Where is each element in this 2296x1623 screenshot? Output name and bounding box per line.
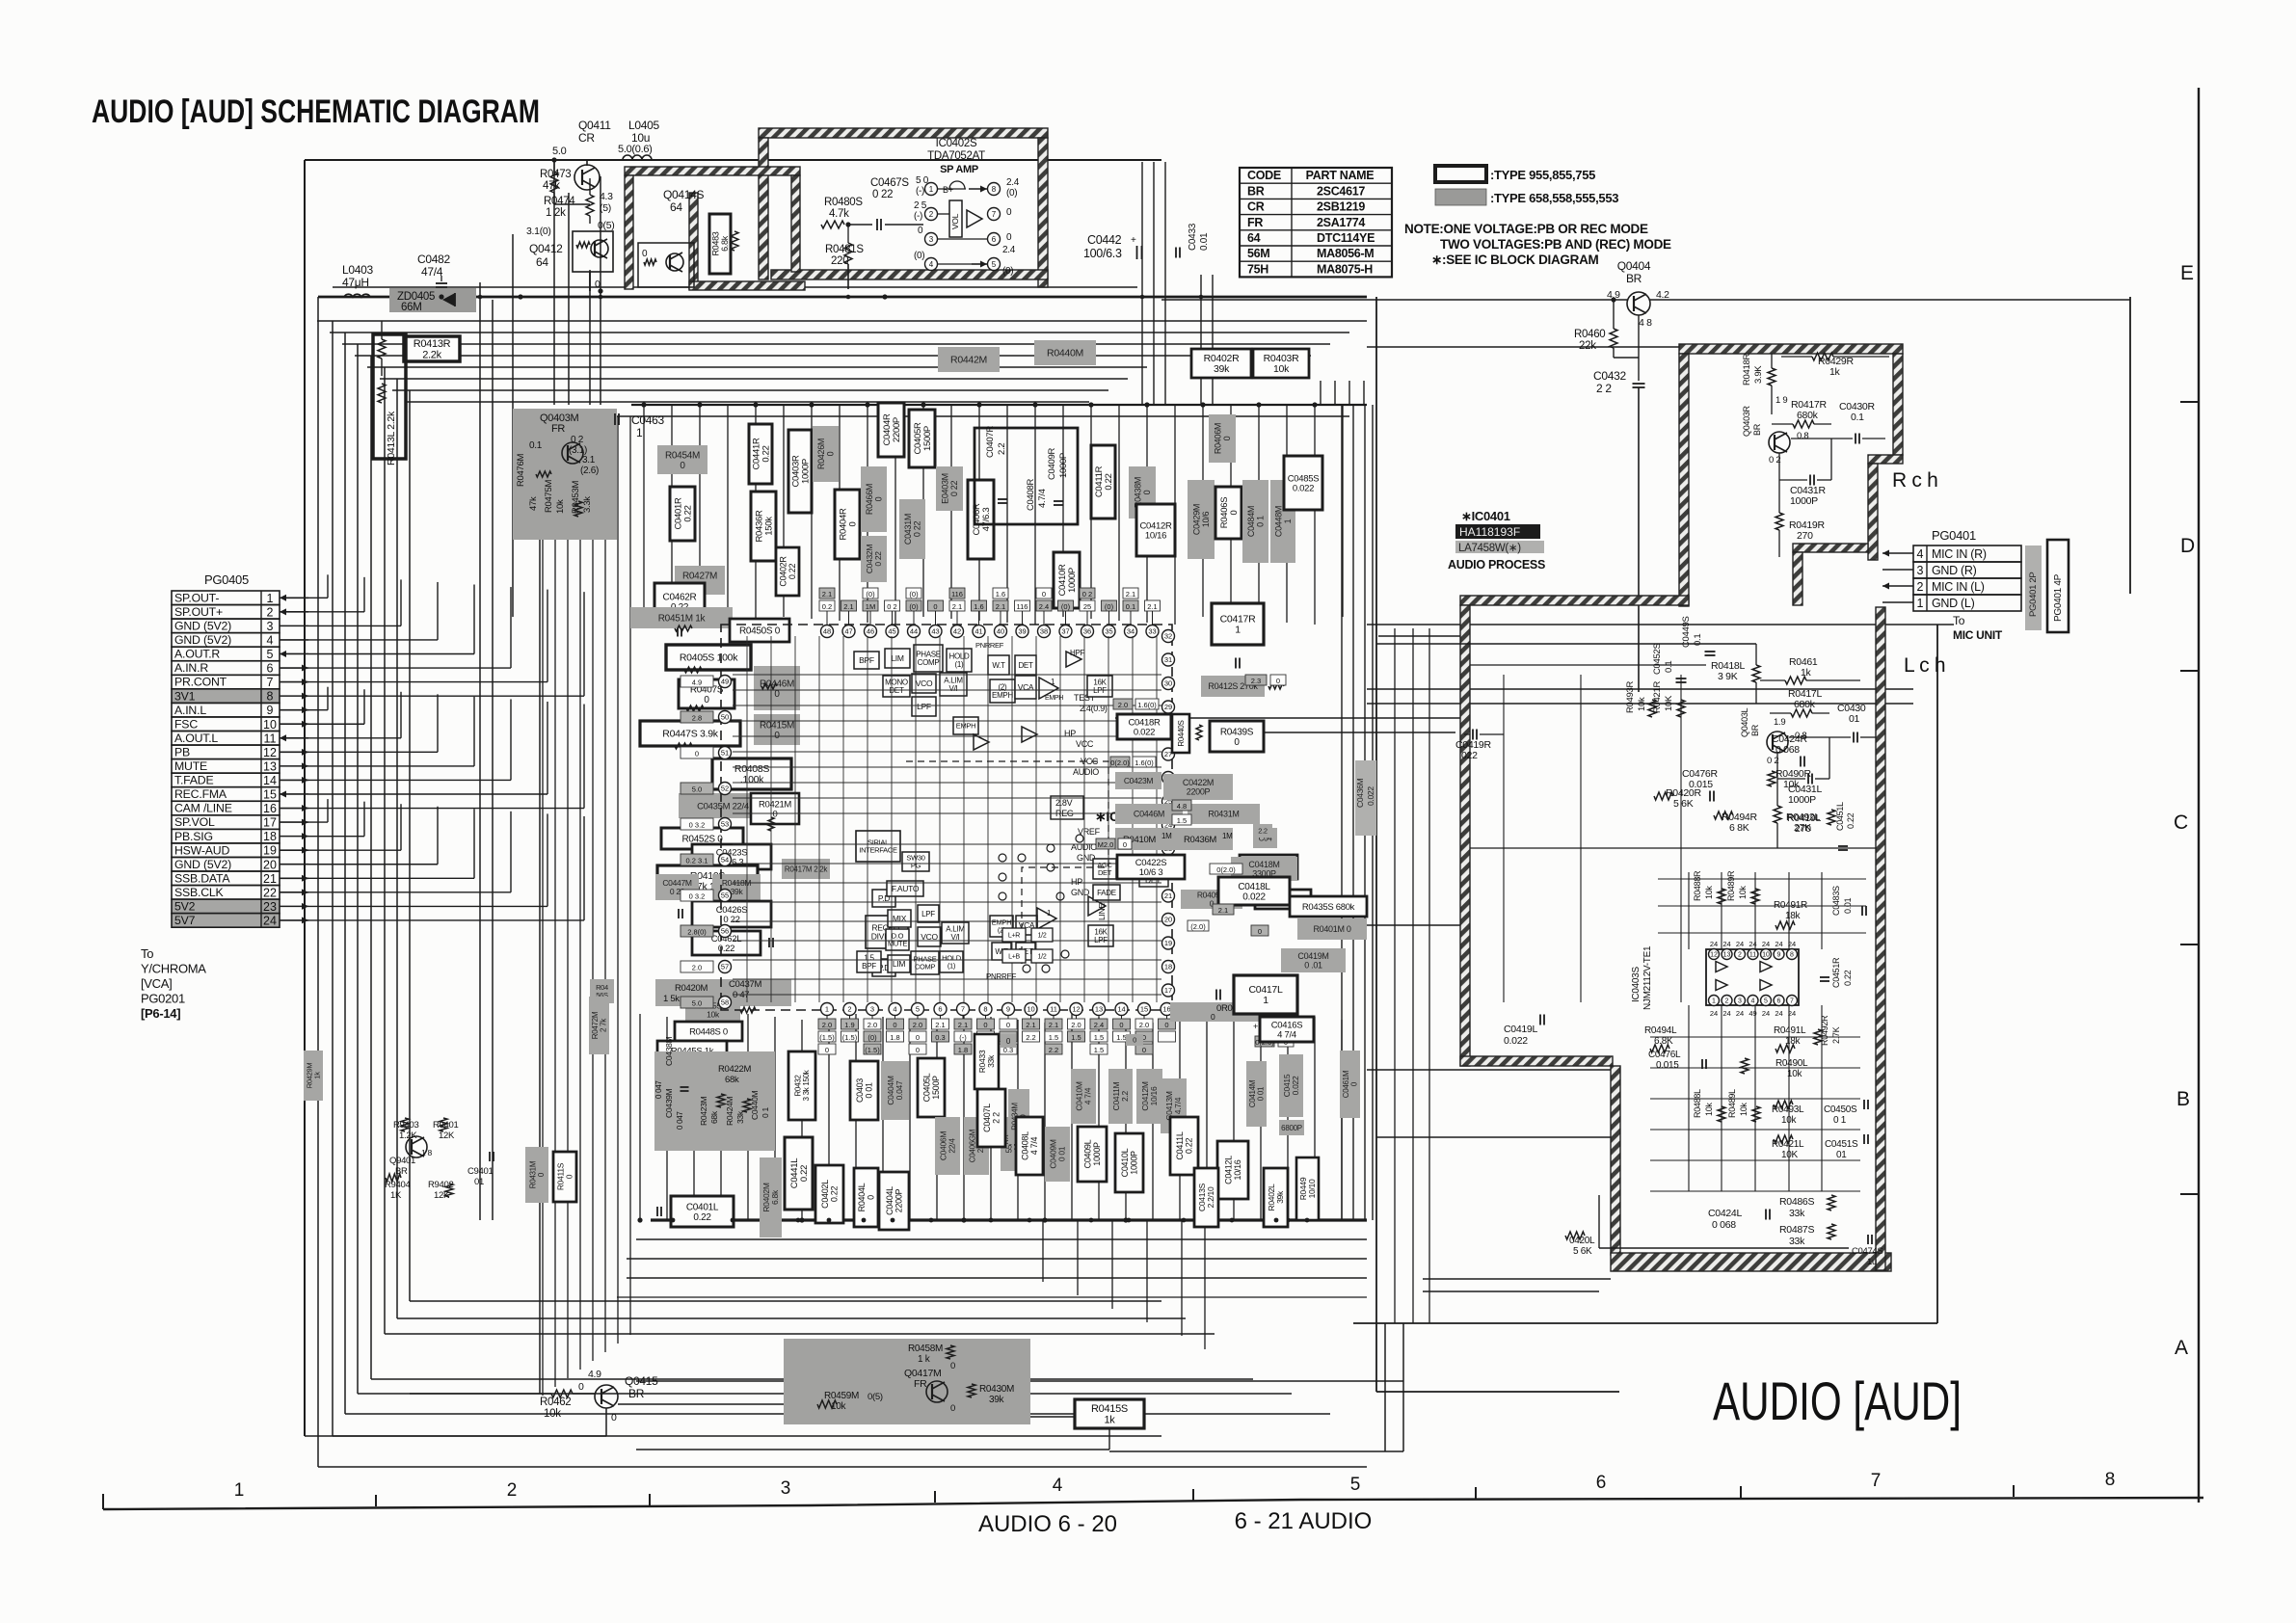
left fan connector stubs	[308, 597, 328, 599]
PG0405 pin 13 MUTE	[172, 759, 280, 774]
PG0405 pin 18 PB.SIG	[172, 829, 280, 843]
svg-text:2.1: 2.1	[996, 602, 1005, 611]
IC0401 inner amps mid	[974, 734, 989, 750]
capacitor block C0410M	[1071, 1069, 1096, 1124]
capacitor block C0415	[1279, 1054, 1303, 1117]
svg-text:0 047: 0 047	[654, 1080, 663, 1099]
svg-text:(1): (1)	[948, 962, 956, 971]
svg-text:A.IN.L: A.IN.L	[174, 704, 206, 717]
svg-text:8: 8	[2105, 1470, 2116, 1490]
wires IC0403S grid	[1658, 878, 1866, 880]
svg-text:0.022: 0.022	[1134, 727, 1155, 737]
resistor R0413L frame	[373, 334, 406, 459]
svg-text:Q0414S: Q0414S	[663, 188, 705, 201]
capacitor block 6800P	[1279, 1120, 1304, 1135]
svg-text:PB.SIG: PB.SIG	[174, 830, 213, 843]
resistor R0452S	[661, 828, 743, 849]
svg-text:68k: 68k	[725, 1075, 739, 1085]
svg-text:2.0: 2.0	[822, 1021, 832, 1029]
svg-text:∗IC0401: ∗IC0401	[1461, 509, 1510, 523]
svg-text:1.6(0): 1.6(0)	[1135, 758, 1154, 767]
svg-text:24: 24	[1762, 940, 1770, 948]
svg-text:24: 24	[1722, 940, 1730, 948]
svg-text:R0451M 1k: R0451M 1k	[658, 614, 707, 625]
capacitor C0401R	[670, 487, 695, 541]
svg-text:2.8: 2.8	[692, 714, 702, 723]
PG0401 arrows	[1882, 552, 1913, 554]
svg-text:L+B: L+B	[1008, 953, 1020, 960]
wire nest L	[344, 333, 346, 1414]
svg-text:BR: BR	[1750, 724, 1760, 736]
svg-text:C0438M: C0438M	[664, 1036, 674, 1066]
svg-text:NJM2112V-TE1: NJM2112V-TE1	[1642, 945, 1653, 1010]
IC0401 inner box MONO DET	[883, 676, 910, 697]
svg-text:0(2.0): 0(2.0)	[1110, 758, 1130, 767]
svg-text:LIM: LIM	[891, 653, 903, 663]
svg-text:PG0401 4P: PG0401 4P	[2053, 573, 2064, 622]
svg-text:4 8: 4 8	[1639, 317, 1652, 329]
IC0401 inner box RECPLL DIVIDER	[866, 916, 908, 948]
capacitor block C0411M	[1108, 1069, 1133, 1124]
svg-text:(0): (0)	[868, 1033, 877, 1042]
svg-text:BPF: BPF	[862, 962, 876, 971]
svg-text:2.2: 2.2	[997, 443, 1007, 455]
svg-text:F.AUTO: F.AUTO	[892, 884, 920, 893]
IC0403S pin bottom	[1787, 996, 1798, 1006]
svg-text:6.8K: 6.8K	[1654, 1036, 1673, 1047]
svg-text:20: 20	[263, 858, 277, 871]
wire nest L	[370, 356, 372, 1379]
lower horizontal links	[627, 1277, 1367, 1279]
central block vertical wires upper band	[643, 405, 645, 617]
svg-text:1.8: 1.8	[890, 1033, 899, 1042]
capacitor C0436M	[1355, 760, 1376, 836]
svg-text:0: 0	[1006, 1021, 1010, 1029]
IC0401 outline dashed	[721, 625, 1172, 1010]
capacitor C0411L	[1170, 1117, 1198, 1175]
IC0401 inner box WT2	[992, 943, 1011, 960]
resistor R0402R	[1191, 349, 1251, 378]
svg-text:MIX: MIX	[893, 914, 907, 923]
resistor R0483	[709, 214, 731, 274]
svg-text:EMPH: EMPH	[992, 691, 1013, 700]
svg-text:C0436M: C0436M	[1355, 778, 1365, 808]
svg-text:10/6: 10/6	[1201, 512, 1211, 528]
grid tick	[2013, 1485, 2015, 1497]
resistor block R0466M	[861, 466, 887, 532]
svg-text:SP AMP: SP AMP	[940, 164, 978, 175]
capacitor block C0406GM	[964, 1117, 989, 1175]
svg-text:(2.0): (2.0)	[1190, 922, 1206, 931]
svg-text:54: 54	[721, 856, 729, 865]
svg-text:C0409R: C0409R	[1047, 448, 1057, 480]
svg-text:9: 9	[267, 704, 274, 717]
svg-text:C0424L: C0424L	[1708, 1208, 1742, 1219]
svg-text:0.22: 0.22	[1104, 473, 1114, 490]
capacitor block C0429M	[1188, 480, 1215, 559]
svg-text:2: 2	[1917, 580, 1924, 594]
svg-text:IC0402S: IC0402S	[936, 138, 977, 149]
svg-text:4: 4	[1751, 998, 1755, 1005]
svg-text:2 5: 2 5	[914, 200, 927, 211]
svg-text:18: 18	[263, 830, 277, 843]
IC0401 inner amp HPF	[1066, 652, 1081, 667]
drop verticals below bus	[1042, 1220, 1044, 1282]
resistor R0438S	[1255, 890, 1311, 909]
capacitor block C0432M	[861, 536, 887, 582]
svg-text:0.22: 0.22	[1843, 970, 1853, 986]
svg-text:5.0: 5.0	[552, 146, 567, 157]
shield wall inner vertical	[1611, 1066, 1620, 1255]
svg-text:9: 9	[1777, 952, 1781, 959]
svg-text:R0476M: R0476M	[516, 454, 526, 487]
capacitor block C0435M	[679, 793, 767, 818]
svg-text:1500P: 1500P	[922, 426, 933, 451]
svg-text:R0493R: R0493R	[1625, 681, 1636, 713]
svg-text:VCO: VCO	[916, 678, 933, 688]
svg-text:0.022: 0.022	[1293, 483, 1314, 493]
capacitor C0402L	[815, 1165, 843, 1223]
svg-text:PNRREF: PNRREF	[975, 641, 1004, 650]
svg-text:0: 0	[1234, 737, 1240, 748]
svg-text:SP.VOL: SP.VOL	[174, 815, 215, 829]
svg-text:D: D	[2180, 535, 2195, 557]
svg-text:3 3k 150k: 3 3k 150k	[802, 1069, 811, 1101]
svg-text:0: 0	[916, 1033, 920, 1042]
svg-text:5: 5	[992, 260, 997, 269]
svg-text:GND: GND	[1071, 888, 1090, 897]
svg-text:EMPH: EMPH	[956, 722, 975, 731]
svg-text:0: 0	[918, 226, 923, 236]
capacitor C0462L	[692, 931, 761, 955]
capacitor C0416S	[1260, 1017, 1314, 1042]
resistor R0408S	[712, 758, 791, 789]
resistor block C0461M tall right	[1340, 1051, 1360, 1118]
svg-text:HPF: HPF	[1070, 649, 1085, 657]
svg-text:01: 01	[474, 1177, 484, 1187]
svg-text:0 22: 0 22	[873, 551, 883, 567]
svg-text:1 8: 1 8	[421, 1148, 432, 1157]
IC0401 inner box VCA	[1015, 676, 1036, 699]
svg-text:32: 32	[1164, 632, 1172, 641]
svg-text:R0475M: R0475M	[544, 480, 554, 513]
bottom bus of central block	[651, 1218, 1367, 1221]
IC0401 inner box PD2	[872, 959, 895, 976]
outer schematic frame	[305, 159, 601, 161]
svg-text:R0480S: R0480S	[824, 197, 863, 208]
svg-text:Q0404: Q0404	[1617, 259, 1651, 273]
svg-text:10k: 10k	[1704, 1103, 1714, 1116]
IC0401 L+R half boxes	[1002, 928, 1026, 942]
svg-text:46: 46	[867, 627, 874, 636]
resistor block R0426M	[813, 426, 839, 482]
svg-text:HP: HP	[1064, 729, 1076, 738]
resistor block R0412S	[1201, 676, 1265, 697]
capacitor block C0406M 22/4	[935, 1117, 960, 1175]
svg-text:FSC: FSC	[174, 717, 198, 731]
IC0401 inner box F.AUTO	[887, 881, 923, 896]
svg-text:10k: 10k	[1637, 697, 1647, 711]
svg-text:(2.6): (2.6)	[580, 466, 599, 476]
transistor Q0403L	[1767, 732, 1788, 753]
IC0401 inner box EMPH small	[953, 717, 978, 734]
svg-text:VOL: VOL	[950, 213, 960, 229]
resistor block R0454M	[657, 445, 707, 474]
resistor block R0442M	[938, 347, 1000, 372]
svg-text:3V1: 3V1	[174, 689, 196, 703]
svg-text:0.2: 0.2	[822, 602, 832, 611]
svg-text:PB: PB	[174, 745, 190, 758]
svg-text:10K: 10K	[1781, 1150, 1799, 1160]
svg-text:C0433: C0433	[1188, 223, 1198, 251]
IC0401 left pin column	[719, 676, 732, 688]
svg-text:1000P: 1000P	[1067, 568, 1078, 593]
capacitor block 55/10	[1001, 1117, 1026, 1171]
svg-text:10K: 10K	[1664, 695, 1674, 711]
svg-text:0 01: 0 01	[864, 1082, 873, 1099]
svg-text:C: C	[2174, 811, 2188, 834]
IC0401 inner box BPF2	[857, 951, 881, 972]
svg-text:AUDIO 6 - 20: AUDIO 6 - 20	[978, 1511, 1117, 1537]
svg-text:(0): (0)	[1002, 266, 1013, 277]
svg-text:1: 1	[234, 1480, 245, 1501]
svg-text:0: 0	[704, 695, 709, 705]
svg-text:7: 7	[961, 1005, 965, 1014]
svg-text:0 3.2: 0 3.2	[689, 821, 706, 830]
svg-text:0.22: 0.22	[788, 564, 797, 580]
svg-text:6800P: 6800P	[1281, 1124, 1302, 1132]
svg-text:10: 10	[1027, 1005, 1034, 1014]
svg-text:2200P: 2200P	[894, 1188, 903, 1212]
block Q0417M gray	[784, 1339, 1030, 1424]
right edge verticals of central block	[1341, 405, 1343, 1220]
svg-text:1000P: 1000P	[1788, 794, 1816, 806]
svg-text:33k: 33k	[1789, 1236, 1805, 1247]
svg-text:C0407R: C0407R	[985, 426, 996, 458]
svg-text:3: 3	[781, 1478, 791, 1499]
svg-text:55: 55	[721, 891, 729, 900]
svg-text:39k: 39k	[731, 887, 744, 896]
IC0401 right pin column	[1162, 630, 1175, 643]
svg-text:3: 3	[1917, 564, 1924, 577]
svg-text:1: 1	[1283, 519, 1293, 523]
svg-text:R0488L: R0488L	[1693, 1089, 1702, 1118]
svg-text:GND (5V2): GND (5V2)	[174, 633, 231, 647]
svg-text:10/16: 10/16	[1233, 1159, 1242, 1180]
svg-text:R0494L: R0494L	[1644, 1025, 1677, 1036]
IC0401 inner amp EMPH1b	[1037, 908, 1056, 929]
svg-text:116: 116	[951, 590, 963, 599]
right side long verticals	[1141, 162, 1143, 405]
svg-text:PART NAME: PART NAME	[1306, 169, 1375, 182]
svg-text:12: 12	[1072, 1005, 1080, 1014]
svg-text:CODE: CODE	[1247, 169, 1281, 182]
svg-text:0: 0	[1258, 927, 1262, 936]
svg-text:7: 7	[1790, 998, 1794, 1005]
svg-text:3.1: 3.1	[582, 455, 596, 466]
svg-text:10/10: 10/10	[1307, 1179, 1317, 1198]
svg-text:0.2 3.1: 0.2 3.1	[686, 857, 708, 865]
svg-text:TDA7052AT: TDA7052AT	[927, 150, 985, 162]
svg-text:1k: 1k	[313, 1072, 322, 1079]
svg-text:0.1: 0.1	[1851, 412, 1864, 423]
grid tick	[934, 1491, 936, 1503]
svg-text:1M: 1M	[1222, 832, 1233, 840]
svg-text:5.0: 5.0	[692, 785, 702, 794]
capacitor block C0421M	[1253, 828, 1277, 848]
capacitor block C0409M	[1045, 1127, 1070, 1182]
IC0403S pin top	[1787, 949, 1798, 960]
svg-text:2.3: 2.3	[1251, 677, 1261, 685]
resistor block R0418M	[712, 874, 761, 900]
svg-text:1.5: 1.5	[1049, 1033, 1058, 1042]
svg-text:0 22: 0 22	[949, 481, 959, 497]
svg-text:2.8(0): 2.8(0)	[687, 928, 707, 937]
IC0401 inner box PHASE COMP	[914, 645, 943, 672]
svg-text:0.01: 0.01	[1199, 232, 1210, 251]
svg-text:1: 1	[1235, 625, 1241, 636]
svg-text:(-): (-)	[914, 211, 922, 222]
border tick D-C	[2180, 670, 2199, 672]
svg-text:GND (5V2): GND (5V2)	[174, 620, 231, 633]
IC0401 inner box EMPH2	[990, 679, 1015, 703]
IC0401 inner box DET2	[1016, 943, 1035, 960]
svg-text:0(2.0): 0(2.0)	[1216, 865, 1236, 874]
svg-text:0: 0	[1229, 510, 1240, 515]
svg-text:2: 2	[267, 605, 274, 619]
svg-text:39: 39	[1018, 627, 1026, 636]
IC0401 inner box HOLD	[947, 649, 972, 672]
resistor block R0417M	[782, 859, 830, 879]
IC0401 inner box VCO2	[918, 927, 941, 946]
svg-text:2.0: 2.0	[868, 1021, 877, 1029]
svg-text:0: 0	[695, 750, 699, 758]
svg-text:5 6K: 5 6K	[1573, 1246, 1592, 1257]
svg-text:0.022: 0.022	[1504, 1035, 1528, 1047]
svg-text:1.5: 1.5	[1071, 1033, 1081, 1042]
svg-text:(0): (0)	[1061, 602, 1071, 611]
transistor Q0414S	[638, 243, 694, 287]
svg-text:01: 01	[1836, 1150, 1847, 1160]
svg-text:6: 6	[267, 662, 274, 676]
svg-text:1K: 1K	[390, 1190, 402, 1201]
svg-text:R0486S: R0486S	[1779, 1196, 1814, 1208]
svg-text:1M: 1M	[866, 602, 875, 611]
svg-text:19: 19	[263, 844, 277, 858]
svg-text:1000P: 1000P	[1129, 1151, 1138, 1175]
capacitor C0426S	[692, 901, 771, 927]
svg-text:C0449S: C0449S	[1681, 616, 1692, 648]
resistor R0404L	[854, 1168, 878, 1227]
svg-text:0: 0	[1006, 207, 1012, 218]
capacitor C0423S	[692, 844, 771, 869]
svg-text:4: 4	[267, 633, 274, 647]
svg-text:15: 15	[263, 788, 277, 802]
svg-text:4.7/4: 4.7/4	[1173, 1097, 1183, 1114]
svg-text:C0462R: C0462R	[663, 592, 697, 602]
svg-text:0 1: 0 1	[1833, 1115, 1847, 1126]
svg-text:2.1: 2.1	[958, 1021, 968, 1029]
resistor R0406S	[1215, 487, 1241, 539]
svg-text:C0437M: C0437M	[729, 979, 761, 990]
IC0401 dashed inner path	[906, 761, 1108, 964]
svg-text:41: 41	[974, 627, 982, 636]
resistor block R0456S	[590, 979, 614, 1003]
IC0401 inner box DET	[1015, 655, 1036, 675]
svg-text:0: 0	[1164, 1021, 1168, 1029]
svg-text:10/16: 10/16	[1149, 1086, 1159, 1105]
svg-text:To: To	[141, 946, 153, 961]
svg-text:B+: B+	[943, 185, 953, 195]
capacitor C0403R	[788, 430, 812, 513]
svg-text:022: 022	[1461, 750, 1478, 761]
svg-text:2.1: 2.1	[935, 1021, 945, 1029]
svg-text:0.015: 0.015	[1656, 1060, 1679, 1071]
svg-text:2: 2	[1725, 998, 1729, 1005]
shield wall long horizontal	[1460, 596, 1689, 605]
capacitor block C0418M	[1231, 857, 1297, 881]
svg-text:R0401M 0: R0401M 0	[1313, 924, 1350, 934]
junction dots bottom bus	[671, 1218, 676, 1223]
svg-text:10k: 10k	[1739, 1103, 1749, 1116]
bus line y420 top of central block	[631, 404, 1367, 406]
svg-text:2.2: 2.2	[1258, 827, 1268, 836]
PG0405 pin 24 5V7	[172, 914, 280, 928]
svg-text:0: 0	[873, 496, 883, 501]
svg-text:0.8: 0.8	[1797, 431, 1808, 441]
svg-text:C0435M 22/4: C0435M 22/4	[697, 801, 749, 811]
svg-text:1500P: 1500P	[931, 1076, 941, 1100]
svg-text:0: 0	[564, 1174, 574, 1179]
resistor R0411S	[553, 1152, 576, 1202]
svg-text:SP.OUT+: SP.OUT+	[174, 605, 223, 619]
svg-text:R0459M: R0459M	[824, 1391, 859, 1401]
svg-text:BR: BR	[1247, 184, 1265, 198]
svg-text:0.3: 0.3	[935, 1033, 945, 1042]
svg-text:33k: 33k	[735, 1110, 745, 1124]
resistor R0431M	[525, 1147, 548, 1203]
svg-text:0.022: 0.022	[1291, 1076, 1300, 1095]
svg-text:R0448S 0: R0448S 0	[689, 1026, 728, 1037]
transistor Q0415	[595, 1385, 618, 1408]
IC0401 inner box WT	[988, 655, 1009, 675]
PG0401 2P tag	[2025, 545, 2042, 630]
svg-text:1.5: 1.5	[1094, 1046, 1104, 1054]
svg-text:PG0401: PG0401	[1932, 528, 1976, 543]
svg-text:0: 0	[578, 1381, 584, 1393]
svg-text:10k: 10k	[1738, 886, 1748, 899]
svg-text:150k: 150k	[763, 517, 774, 536]
grid tick	[375, 1495, 377, 1506]
IC0401 inner box PD1	[872, 890, 895, 907]
PG0405 pin 2 SP.OUT+	[172, 605, 280, 620]
svg-text:IC0403S: IC0403S	[1631, 967, 1642, 1002]
capacitor C0401L	[671, 1196, 734, 1227]
svg-text:2200P: 2200P	[892, 417, 902, 442]
wire nest L	[332, 321, 334, 1436]
resistor R0450S	[730, 619, 789, 642]
svg-text:56M: 56M	[1247, 247, 1269, 260]
svg-text:5: 5	[1350, 1475, 1361, 1495]
svg-text:R c h: R c h	[1892, 469, 1938, 492]
svg-text:HA118193F: HA118193F	[1459, 525, 1520, 539]
svg-text:2.2: 2.2	[1026, 1033, 1035, 1042]
svg-text:24: 24	[1775, 940, 1782, 948]
svg-text:BR: BR	[628, 1387, 645, 1400]
capacitor block E0403M	[936, 466, 963, 511]
svg-text:0.22: 0.22	[1846, 812, 1855, 829]
IC0401 top pin value boxes	[819, 600, 835, 611]
